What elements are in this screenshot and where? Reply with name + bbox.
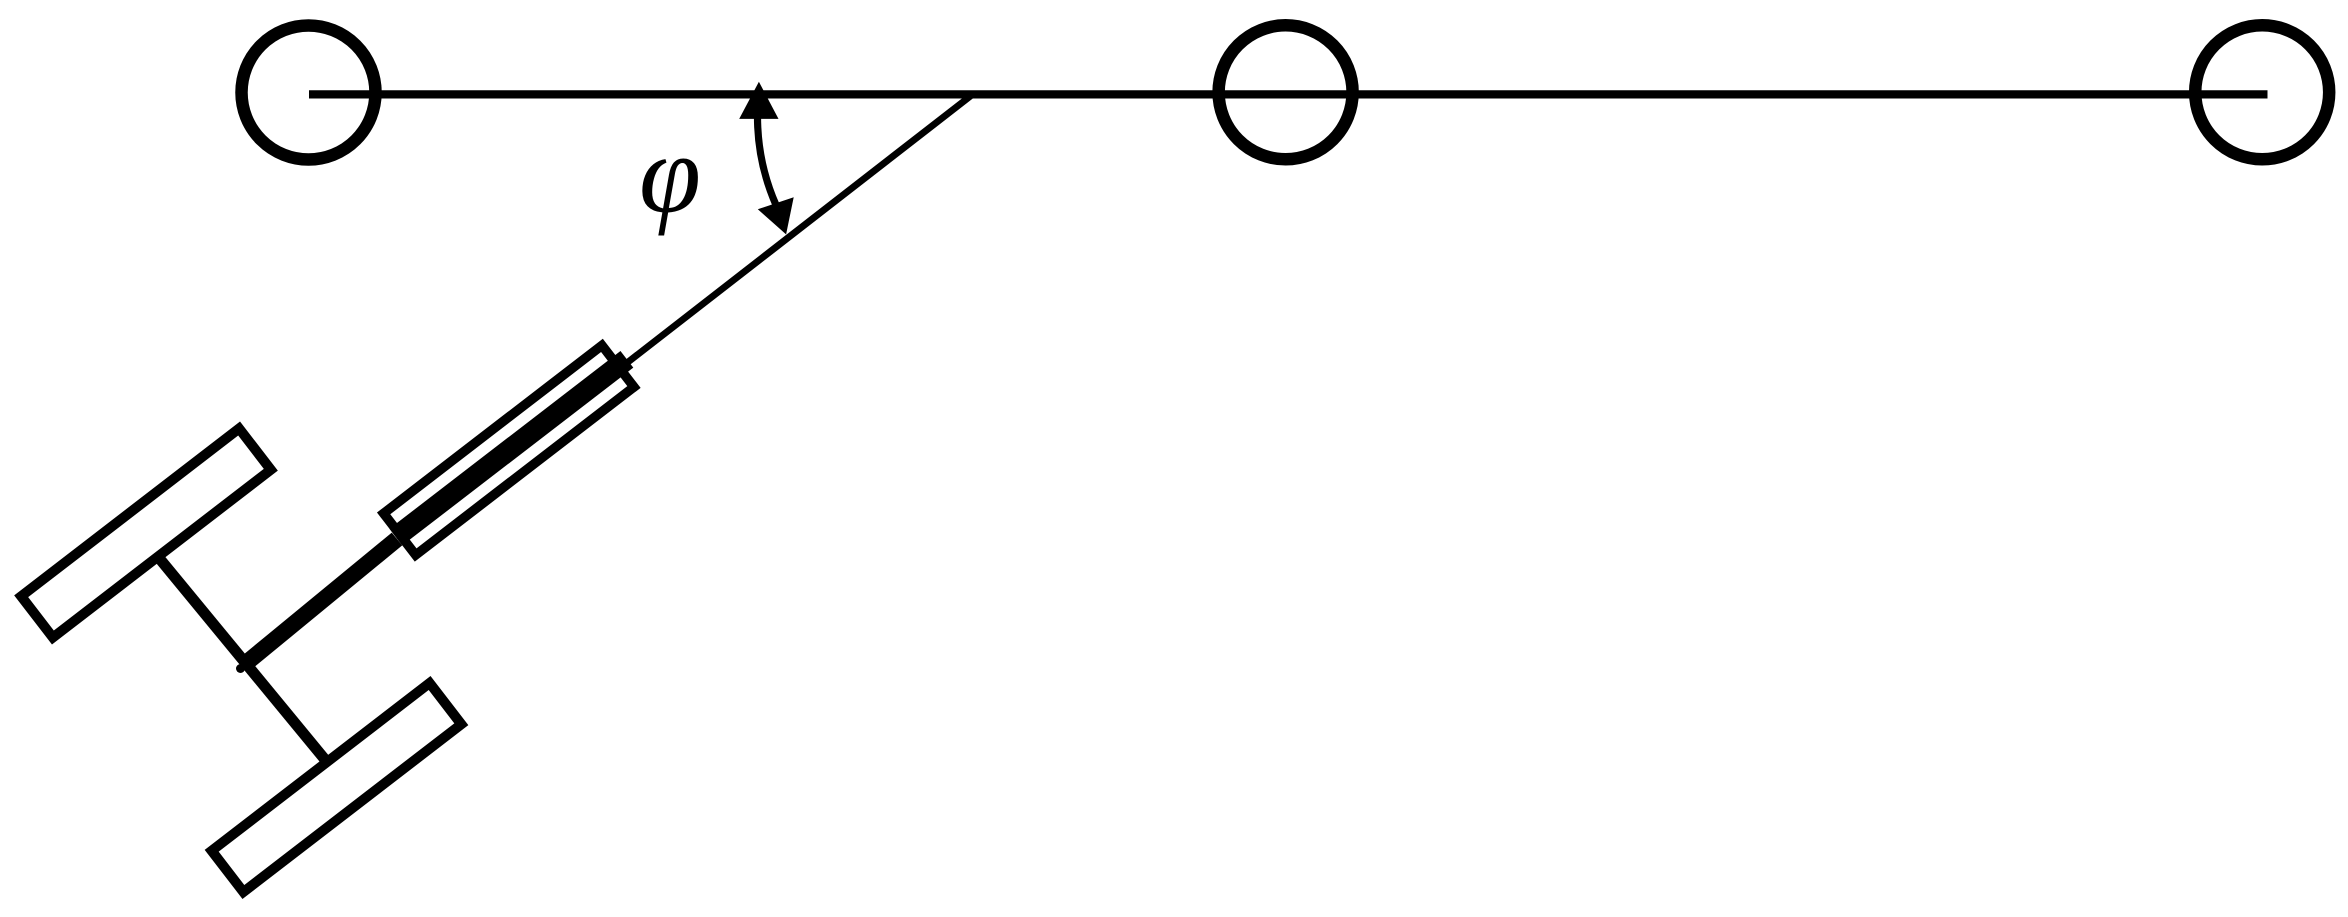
tow wire (thick) from tensioner to tractor axle <box>245 539 397 664</box>
axle line between wheels <box>154 552 328 763</box>
angle arc <box>757 115 776 205</box>
tensioner rod <box>389 351 633 545</box>
pulley circle left <box>242 26 376 160</box>
tensioner frame <box>384 345 634 555</box>
pulling rope (thin diagonal wire from vertex to tensioner) <box>621 95 973 368</box>
wire end tick at axle junction <box>236 664 245 673</box>
pulley circle right <box>2195 25 2329 159</box>
svg-text:φ: φ <box>639 113 701 237</box>
wheel bottom-right <box>212 683 462 892</box>
conductor line (horizontal wire through pulleys) <box>309 90 2268 98</box>
wheel top-left <box>21 429 271 638</box>
arrowhead bottom <box>758 197 794 234</box>
arrowhead top <box>739 82 778 119</box>
tensioner device group <box>380 339 643 558</box>
pulley circle middle <box>1219 25 1353 159</box>
